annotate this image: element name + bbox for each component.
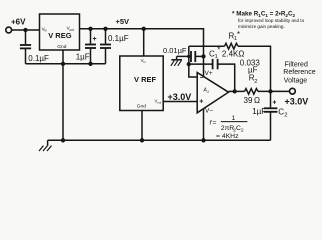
svg-text:V−: V− — [205, 108, 213, 115]
svg-text:in: in — [44, 29, 47, 33]
wire V REF Vin — [143, 29, 145, 56]
wire V REF gnd pin — [141, 111, 143, 141]
svg-text:= 4KHz: = 4KHz — [216, 133, 239, 140]
op-amp A1 — [197, 70, 228, 115]
formula f = 1/(2piR2C2) — [210, 115, 248, 140]
svg-text:1µF: 1µF — [252, 107, 266, 116]
wire V REF out to op-amp — [163, 101, 197, 103]
resistor R1 2.4K — [222, 30, 244, 58]
svg-text:0.01µF: 0.01µF — [163, 46, 187, 55]
wire C1 branch — [189, 63, 212, 65]
svg-text:=: = — [213, 120, 217, 127]
svg-text:1: 1 — [232, 115, 236, 122]
resistor R2 39ohm — [244, 74, 261, 106]
svg-text:*: * — [237, 30, 240, 39]
reference U2 V REF — [120, 56, 163, 111]
wire R1 branch — [189, 45, 225, 47]
capacitor 0.1uF bypass — [100, 29, 129, 64]
node gnd bus junction — [61, 62, 65, 66]
wire R1 to feedback — [238, 46, 271, 91]
ground bypass symbol — [171, 56, 182, 65]
node rail junction 0.1uF — [103, 27, 107, 31]
svg-text:2πR: 2πR — [221, 125, 234, 132]
wire +5V rail — [80, 17, 204, 77]
svg-text:V REG: V REG — [48, 31, 72, 40]
svg-text:Reference: Reference — [283, 69, 315, 76]
svg-text:+: + — [272, 100, 276, 107]
svg-text:1: 1 — [207, 90, 209, 94]
svg-text:Gnd: Gnd — [57, 44, 66, 50]
label filtered reference voltage — [283, 61, 315, 84]
svg-text:*: * — [217, 46, 220, 55]
node input junction — [23, 28, 27, 32]
node V- rail junction — [201, 138, 205, 142]
input terminal +6V — [6, 17, 26, 33]
node gnd rail junction — [140, 138, 144, 142]
wire R2 to output terminal — [258, 90, 290, 92]
capacitor C2 1uF — [252, 91, 287, 140]
svg-text:0.1µF: 0.1µF — [28, 54, 49, 63]
wire input to V REG — [12, 29, 40, 31]
node output junction — [268, 89, 272, 93]
svg-text:+3.0V: +3.0V — [168, 92, 192, 102]
svg-text:in: in — [143, 60, 146, 64]
svg-text:V+: V+ — [205, 70, 213, 77]
svg-text:+6V: +6V — [11, 17, 26, 26]
node C1 junction — [187, 62, 191, 66]
svg-text:−: − — [200, 75, 204, 82]
output terminal — [285, 88, 309, 106]
svg-text:2: 2 — [254, 79, 257, 85]
wire V REG gnd pin — [62, 50, 64, 64]
node gnd rail left junction — [61, 138, 65, 142]
note text — [232, 11, 305, 29]
capacitor 1uF polarized — [76, 29, 97, 64]
svg-text:out: out — [157, 101, 161, 105]
svg-text:for improved loop stability an: for improved loop stability and to — [238, 18, 305, 23]
svg-text:Voltage: Voltage — [284, 78, 307, 85]
svg-text:Gnd: Gnd — [137, 104, 146, 110]
regulator U1 V REG — [40, 14, 80, 50]
node rail junction 1uF — [88, 27, 92, 31]
svg-text:minimize gain peaking.: minimize gain peaking. — [238, 24, 285, 29]
svg-text:+3.0V: +3.0V — [285, 96, 309, 106]
svg-text:39 Ω: 39 Ω — [244, 96, 261, 105]
wire op-amp output — [229, 90, 245, 92]
svg-text:2: 2 — [241, 127, 244, 133]
node rail junction VREF — [142, 27, 146, 31]
svg-text:2: 2 — [284, 112, 287, 118]
svg-text:1: 1 — [215, 54, 218, 60]
svg-text:+: + — [199, 98, 203, 105]
wire C1 to output — [218, 64, 235, 91]
svg-text:+: + — [93, 36, 97, 43]
capacitor 0.01uF — [163, 46, 204, 62]
svg-text:Filtered: Filtered — [285, 61, 308, 68]
node bypass junction — [201, 54, 205, 58]
wire inverting input — [189, 46, 197, 77]
capacitor 0.1uF input — [20, 30, 49, 64]
svg-text:V REF: V REF — [134, 75, 157, 84]
wire gnd drop — [62, 64, 64, 141]
svg-text:0.1µF: 0.1µF — [108, 34, 129, 43]
node crossing blob — [187, 55, 190, 58]
svg-text:1µF: 1µF — [76, 53, 90, 62]
node cap gnd junction — [88, 62, 92, 66]
svg-text:2.4KΩ: 2.4KΩ — [222, 49, 244, 58]
capacitor C1 0.033uF — [209, 46, 220, 70]
ground main symbol — [39, 140, 52, 151]
wire ground rail — [48, 139, 271, 141]
node C1 output junction — [233, 89, 237, 93]
svg-text:+5V: +5V — [116, 17, 130, 26]
wire ground bus upper — [26, 63, 106, 65]
wire V- pin to ground rail — [203, 109, 205, 141]
